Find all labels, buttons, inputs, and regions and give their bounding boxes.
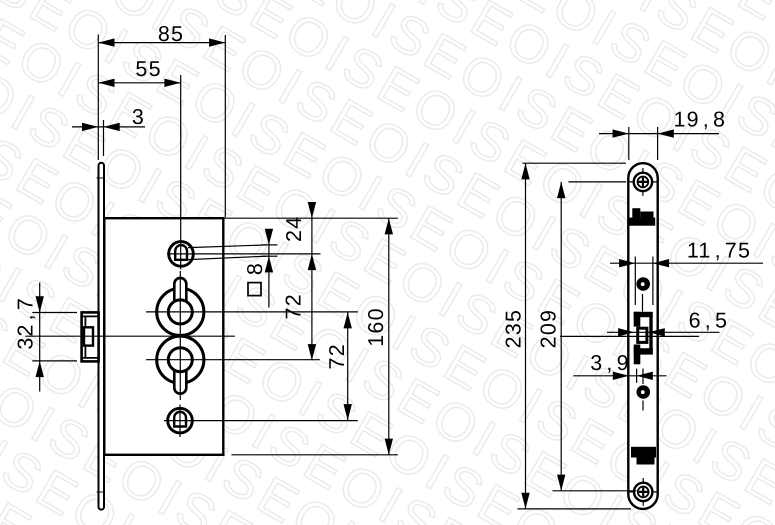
latch centerline right view: [560, 335, 699, 337]
top hole centerline horizontal (ext to 24/72 dim): [167, 253, 321, 255]
top square hole: [169, 242, 194, 267]
bottom hole square insert: [174, 412, 186, 427]
body bottom edge extension to right: [231, 454, 398, 456]
svg-text:3: 3: [132, 105, 145, 129]
follower1 centerline ext: [146, 311, 358, 313]
latch centerline left view: [25, 335, 235, 337]
black pad upper: [630, 208, 656, 226]
black pad lower: [631, 447, 656, 465]
latch front view: [634, 312, 653, 365]
latch side view: [82, 312, 99, 361]
top hole square insert: [175, 245, 187, 260]
svg-text:3,9: 3,9: [590, 351, 630, 375]
dim 11,75: [610, 238, 763, 305]
svg-text:72: 72: [281, 293, 305, 319]
svg-text:72: 72: [325, 343, 349, 369]
svg-text:11,75: 11,75: [687, 238, 751, 262]
bottom hole centerline: [164, 420, 358, 422]
top hole centerline vertical (also 55 ext): [180, 75, 182, 270]
tick top screw side: [97, 177, 105, 179]
svg-text:85: 85: [158, 22, 184, 46]
dim 3: [72, 105, 145, 156]
lock body: [104, 218, 223, 455]
svg-text:160: 160: [364, 307, 388, 346]
dim 3,9: [574, 351, 667, 383]
bottom screw: [634, 483, 652, 501]
bottom screw crosshair: [630, 491, 658, 493]
dim 6,5: [607, 309, 728, 337]
faceplate front outline: [628, 163, 657, 509]
centerline tick below small hole upper: [642, 294, 644, 312]
dim 235: [501, 163, 631, 509]
dim 72 second: [325, 312, 352, 420]
dim 209: [536, 182, 636, 491]
dim 19,8: [599, 108, 726, 161]
keyhole follower lower: [157, 336, 204, 394]
follower2 centerline ext: [146, 359, 320, 361]
svg-text:24: 24: [282, 216, 306, 242]
dim 55: [98, 57, 180, 87]
dim 32,7: [13, 283, 77, 392]
dim 85: [98, 22, 225, 217]
top screw crosshair: [629, 181, 657, 183]
bottom square hole: [168, 408, 193, 433]
small hole upper: [636, 277, 650, 291]
keyhole vertical centerline: [179, 271, 181, 400]
svg-text:235: 235: [501, 309, 525, 348]
small hole lower: [637, 385, 651, 399]
svg-text:55: 55: [135, 57, 161, 81]
faceplate side strip: [99, 163, 105, 510]
centerline tick above small hole lower: [642, 369, 644, 385]
svg-text:8: 8: [243, 262, 267, 275]
keyhole follower upper: [157, 278, 204, 336]
dim chain 24 + 72: [281, 202, 316, 360]
svg-text:209: 209: [536, 309, 560, 348]
square-8 leader lines: [188, 245, 267, 248]
body top edge extension to right: [223, 217, 398, 219]
centerline tick below small hole lower: [642, 401, 644, 411]
top screw: [634, 173, 652, 191]
svg-text:6,5: 6,5: [689, 309, 729, 333]
tick bottom screw side: [97, 491, 105, 493]
dim 160: [364, 218, 393, 455]
square-8 dimension line: [268, 231, 270, 308]
